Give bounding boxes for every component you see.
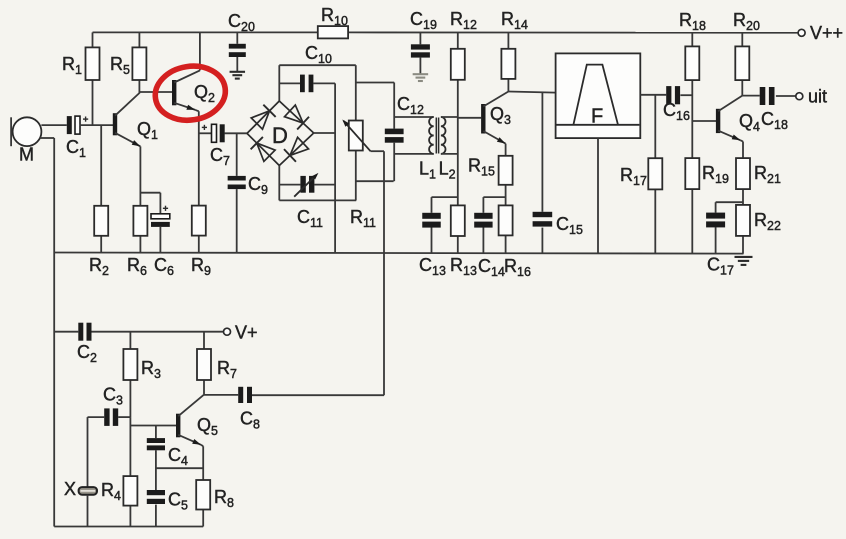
svg-text:D: D — [272, 123, 288, 148]
wire mic to C1 — [41, 124, 66, 126]
wire R11 upper branch to tank — [356, 83, 394, 118]
resistor R9 — [191, 206, 211, 278]
filter block F — [556, 53, 641, 138]
wire tank bottom to L1 — [394, 153, 434, 155]
capacitor C14 — [474, 213, 505, 279]
wire ground vertical right of bridge — [334, 83, 336, 252]
resistor R5 — [110, 32, 146, 93]
capacitor C16 — [663, 86, 692, 123]
wire Q4 collector to C18 — [742, 95, 759, 97]
diode D top-left — [247, 101, 279, 133]
label D — [272, 123, 288, 148]
transformer core — [436, 118, 438, 154]
capacitor C11 — [279, 173, 335, 230]
wire tank top to L1 — [394, 116, 434, 118]
resistor R16 — [499, 205, 531, 279]
terminal V+ — [224, 323, 258, 343]
resistor R10 — [318, 5, 348, 38]
wire bridge bottom vertex down — [278, 166, 280, 201]
capacitor C20 — [228, 11, 255, 71]
node bridge top wire — [279, 65, 356, 101]
capacitor C10 — [279, 43, 335, 92]
wire L2 bottom to R13 column — [441, 153, 458, 155]
resistor R18 — [679, 10, 706, 158]
wire C3 left down to crystal — [87, 417, 89, 487]
inductor L2 — [439, 117, 456, 182]
wire bottom rail — [54, 526, 203, 528]
wire Q2 collector to rail — [195, 32, 200, 111]
wire bridge bottom horizontal to R11 — [279, 199, 356, 201]
wire ground rail — [54, 253, 743, 254]
resistor R6 — [127, 206, 147, 278]
capacitor C17 — [706, 213, 734, 278]
highlight red circle around Q2 — [151, 61, 229, 125]
capacitor C3 — [88, 385, 131, 426]
wire Q3 collector to filter — [508, 92, 555, 93]
resistor R17 — [620, 95, 662, 254]
wire top V++ rail right of R10 — [348, 31, 798, 33]
capacitor C5 — [147, 490, 188, 527]
transistor Q5 — [176, 395, 218, 445]
wire Q5 collector to C8 — [204, 394, 239, 396]
diode D bottom-right — [279, 133, 313, 166]
resistor R12 — [450, 9, 477, 205]
wire R11 wiper to oscillator — [371, 151, 385, 395]
svg-text:V+: V+ — [235, 323, 258, 343]
capacitor C13 — [419, 213, 446, 278]
wire C13 branch — [432, 197, 458, 213]
inductor L1 — [419, 117, 436, 182]
ground at right end of rail — [735, 257, 753, 265]
svg-text:X: X — [64, 479, 76, 499]
resistor R1 — [62, 32, 100, 125]
wire bridge right vertex to ground line — [314, 132, 335, 134]
capacitor C6 — [151, 206, 174, 278]
resistor R15 — [468, 156, 513, 206]
resistor R14 — [501, 9, 528, 92]
capacitor C7 — [199, 124, 247, 168]
resistor R8 — [196, 480, 234, 527]
wire F bottom to ground rail — [597, 138, 599, 253]
wire Q3 base — [458, 117, 481, 119]
wire Q2 base — [139, 91, 172, 93]
capacitor C4 — [147, 438, 188, 490]
transistor Q2 — [172, 70, 215, 110]
capacitor C19 — [410, 9, 437, 74]
resistor R13 — [450, 205, 477, 278]
wire C6 branch — [140, 193, 160, 214]
capacitor C2 — [77, 323, 223, 365]
capacitor C9 — [228, 174, 268, 253]
diode D top-right — [279, 101, 313, 133]
wire left column to C2 — [54, 331, 78, 333]
wire L2 top to base column — [441, 116, 458, 118]
wire C9 lead — [236, 133, 238, 176]
capacitor C18 — [760, 87, 796, 132]
resistor R7 — [197, 332, 237, 395]
capacitor C8 — [238, 387, 260, 432]
microphone M — [11, 117, 41, 164]
wire mic case down — [40, 138, 54, 527]
resistor R11 — [342, 65, 376, 230]
wire Q4 emitter to R21 — [741, 140, 744, 158]
terminal uit — [796, 87, 827, 107]
wire C4 tap — [155, 426, 157, 439]
crystal X — [64, 479, 97, 499]
svg-text:F: F — [591, 106, 603, 128]
wire R3 bottom to base node — [129, 417, 131, 425]
wire top V++ rail left of R10 — [93, 31, 318, 33]
wire Q5 base — [130, 425, 176, 427]
wire C1 to Q1 base — [79, 124, 115, 126]
ground below C20 — [230, 72, 246, 79]
terminal V++ — [798, 23, 843, 43]
resistor R20 — [733, 10, 760, 96]
capacitor C15 — [533, 92, 583, 253]
wire C14 branch — [483, 197, 505, 213]
wire C4-C5 node to emitter — [156, 467, 203, 469]
wire crystal to bottom rail — [87, 495, 89, 527]
transistor Q4 — [716, 96, 760, 141]
resistor R22 — [736, 205, 781, 254]
transistor Q1 — [113, 93, 158, 146]
wire Q4 base — [692, 120, 716, 122]
resistor R4 — [101, 426, 137, 527]
diode D bottom-left — [247, 133, 279, 165]
wire Q5 emitter to R8 — [201, 445, 203, 480]
transistor Q3 — [481, 92, 511, 144]
ground below C19 — [413, 74, 429, 81]
capacitor C12 — [385, 94, 424, 181]
wire C17 branch — [716, 202, 743, 212]
capacitor C1 — [66, 116, 88, 160]
svg-text:M: M — [19, 145, 34, 165]
resistor R3 — [123, 332, 161, 417]
wire C8 to R11 wiper line — [252, 394, 384, 396]
resistor R21 — [736, 158, 781, 205]
wire R11 lower branch to tank — [356, 180, 394, 182]
wire Q1 emitter to R6 — [139, 146, 141, 205]
resistor R2 — [89, 125, 109, 278]
wire Q2 emitter down to R9 — [198, 111, 200, 205]
svg-text:uit: uit — [808, 87, 827, 107]
wire F output — [640, 94, 666, 96]
svg-text:V++: V++ — [810, 23, 843, 43]
wire Q3 emitter to R15 — [505, 144, 507, 156]
resistor R19 — [685, 158, 729, 253]
